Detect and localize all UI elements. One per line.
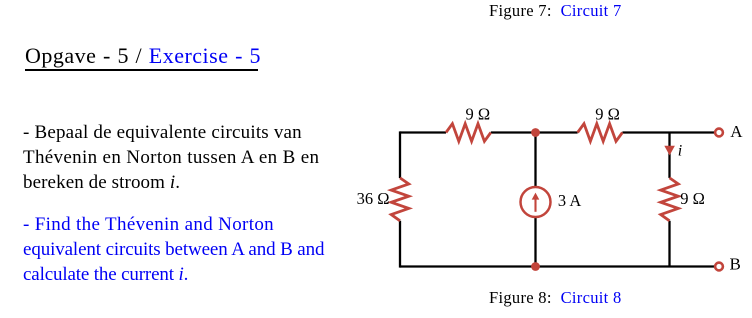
svg-text:9 Ω: 9 Ω: [680, 189, 705, 208]
terminal B circle: [715, 263, 723, 271]
resistor R2 9ohm top-right zigzag: [578, 124, 623, 142]
current arrow i: [664, 146, 675, 156]
paragraph dutch: [23, 120, 319, 195]
svg-text:i: i: [678, 143, 682, 160]
current source arrowhead: [532, 193, 540, 200]
svg-text:9 Ω: 9 Ω: [595, 104, 620, 123]
resistor R3 9ohm right vertical zigzag: [661, 178, 679, 221]
node dot bottom: [531, 262, 540, 271]
svg-text:A: A: [730, 122, 743, 141]
wire top rail right segment: [622, 131, 714, 133]
node dot top: [531, 128, 540, 137]
wire bottom rail: [400, 265, 714, 267]
paragraph english: [23, 212, 324, 287]
title Opgave/Exercise: [25, 43, 261, 69]
terminal A circle: [715, 129, 723, 137]
caption Figure 7: [489, 2, 622, 20]
current source arrow shaft: [534, 199, 536, 212]
wire right branch upper: [668, 133, 670, 178]
wire left rail upper: [399, 131, 401, 178]
resistor 36ohm left vertical zigzag: [391, 178, 409, 221]
resistor R1 9ohm top-left zigzag: [446, 124, 491, 142]
title underline: [25, 69, 258, 71]
wire left rail lower: [399, 221, 401, 268]
wire top rail left segment: [400, 131, 446, 133]
caption Figure 8: [489, 289, 622, 307]
wire middle branch lower: [534, 218, 536, 267]
svg-text:3 A: 3 A: [558, 191, 581, 210]
current source I1 circle: [521, 187, 551, 217]
svg-text:36 Ω: 36 Ω: [357, 189, 390, 208]
svg-text:9 Ω: 9 Ω: [466, 104, 491, 123]
svg-text:B: B: [730, 255, 741, 274]
wire top rail middle segment: [491, 131, 578, 133]
wire right branch lower: [668, 221, 670, 267]
wire middle branch upper: [534, 133, 536, 187]
